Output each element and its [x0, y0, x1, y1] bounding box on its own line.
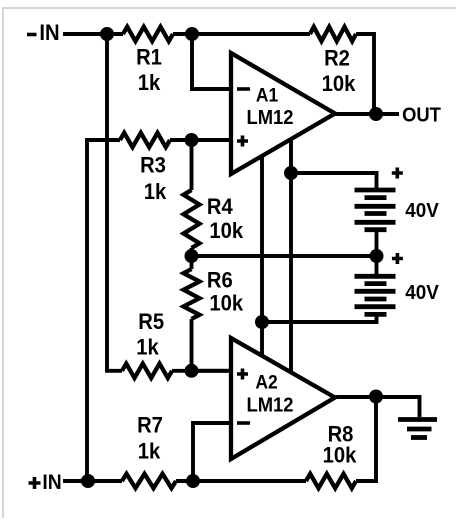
svg-text:R4: R4 [207, 195, 233, 219]
svg-text:1k: 1k [138, 440, 161, 464]
svg-text:1k: 1k [136, 336, 159, 360]
svg-text:1k: 1k [144, 180, 167, 204]
svg-text:10k: 10k [322, 72, 356, 96]
svg-text:R5: R5 [138, 310, 164, 334]
svg-text:40V: 40V [405, 281, 439, 304]
svg-text:10k: 10k [209, 292, 243, 316]
svg-text:IN: IN [39, 21, 59, 45]
svg-text:10k: 10k [209, 219, 243, 243]
svg-text:R2: R2 [324, 47, 350, 71]
svg-text:R6: R6 [207, 269, 233, 293]
svg-text:10k: 10k [323, 444, 357, 468]
svg-text:R3: R3 [140, 154, 166, 178]
svg-text:OUT: OUT [402, 105, 441, 127]
svg-text:R7: R7 [137, 414, 163, 438]
svg-text:A1: A1 [256, 84, 278, 106]
svg-text:40V: 40V [405, 199, 439, 222]
svg-text:1k: 1k [138, 71, 161, 95]
svg-text:R1: R1 [136, 46, 162, 70]
svg-text:LM12: LM12 [246, 107, 293, 129]
svg-text:LM12: LM12 [246, 395, 293, 417]
svg-text:IN: IN [42, 471, 61, 494]
svg-text:A2: A2 [255, 371, 277, 393]
